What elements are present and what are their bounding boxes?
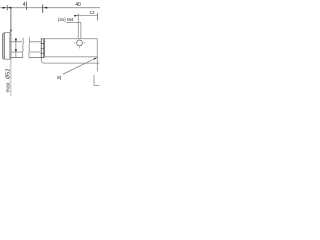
clamp collar left rail (40, 39, 42, 58)
leader underline of M4 note (66, 21, 81, 23)
housing body outline (44, 39, 97, 57)
dimension line upper of max dia 52 (10, 8, 12, 32)
housing body left face (43, 39, 45, 57)
flange disc bottom edge (3, 57, 11, 60)
flange disc inner right line (9, 33, 11, 60)
shaft top line (10, 41, 42, 43)
svg-text:4: 4 (23, 2, 26, 8)
flange disc top edge (3, 33, 11, 34)
M4 hole circle (77, 40, 83, 46)
extension tick right of dim 4 (26, 2, 28, 11)
svg-text:40: 40 (75, 2, 81, 8)
extension line from hole center for dim 12 (77, 13, 79, 40)
flange disc front face left line (2, 34, 4, 59)
break line left (22, 38, 25, 59)
cable end extension line (96, 57, 98, 72)
svg-text:max. Ø52: max. Ø52 (5, 68, 11, 92)
svg-text:(2x) M4: (2x) M4 (58, 17, 74, 22)
leader drop of M4 note (80, 22, 82, 40)
arrow upper of max dia 52 (10, 30, 12, 33)
clamp collar rungs (41, 39, 44, 58)
shaft mid line (11, 51, 41, 53)
clamp collar right rail (43, 39, 45, 58)
lower right extension line horizontal (94, 84, 100, 86)
dimension line lower of max dia 52 (10, 60, 12, 97)
arrow lower of max dia 52 (10, 60, 11, 62)
arrow left outer of dim 4 (3, 7, 7, 9)
shaft diameter dimension line vertical (15, 38, 17, 57)
arrow left of dim 40 (43, 7, 47, 9)
M4 hole centerline ticks (74, 43, 86, 49)
shaft diameter arrow upper (15, 39, 17, 42)
arrow left of dim 12 (74, 15, 78, 17)
svg-text:12: 12 (89, 10, 95, 15)
dimension line top (shared line for 4 and 40) (0, 7, 100, 9)
note leader line 8) (63, 58, 97, 75)
extension tick left of dim 4 (6, 5, 8, 11)
lower right extension line vertical (93, 75, 95, 86)
note leader arrowhead (94, 58, 97, 60)
shaft bottom line (11, 57, 41, 59)
break line right (28, 38, 31, 59)
extension tick left of dim 40 (42, 5, 44, 14)
shaft diameter arrow lower (15, 49, 17, 52)
extension line right of dim 12 and 40 (96, 13, 98, 21)
flange disc right face line (10, 33, 12, 60)
dimension line 12 (74, 15, 97, 17)
svg-text:8): 8) (57, 75, 62, 81)
arrow right outer of dim 4 (8, 7, 12, 9)
cable outline from collar (41, 58, 99, 63)
flange disc left rim line (3, 33, 5, 60)
